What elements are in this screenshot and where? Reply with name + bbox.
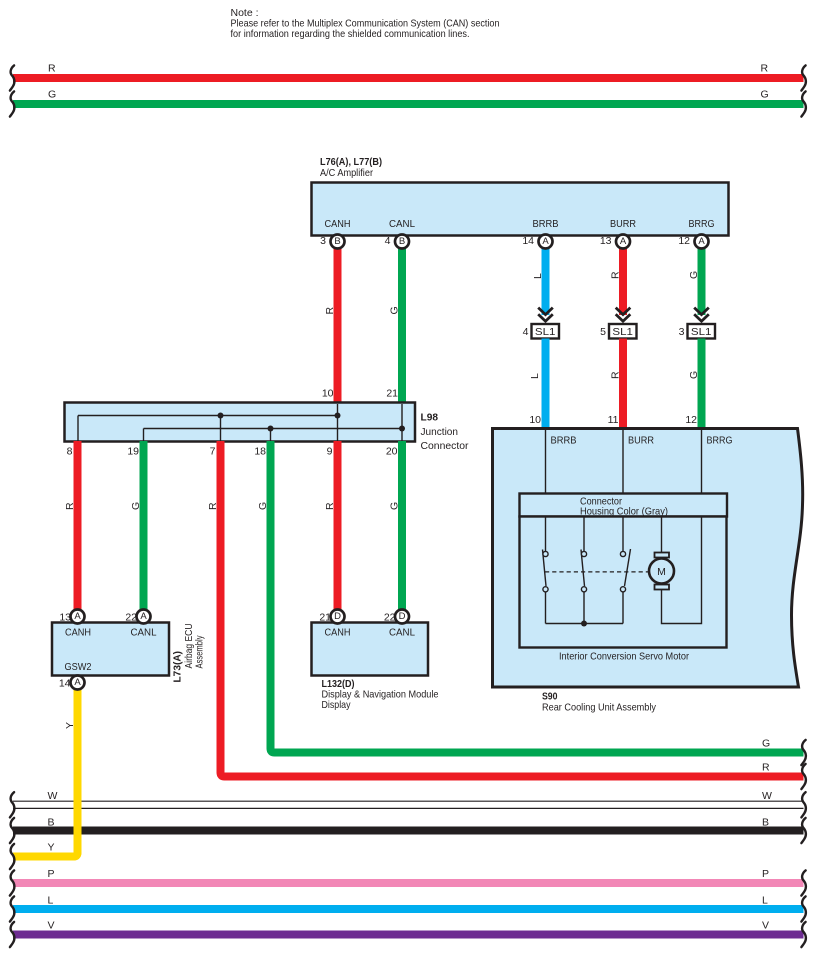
pin 22 A L73 [125, 610, 150, 624]
pin 22 D L132 [384, 610, 409, 624]
L98 internal CANL net [144, 404, 403, 441]
S90 internal BRRB lead [545, 430, 547, 494]
wire red pin8 L98 to L73 pin13 [74, 441, 82, 611]
break right L [801, 896, 805, 921]
svg-text:SL1: SL1 [535, 326, 556, 338]
svg-text:B: B [762, 816, 769, 828]
svg-text:R: R [48, 63, 56, 75]
svg-text:GSW2: GSW2 [65, 661, 92, 673]
svg-text:10: 10 [529, 414, 541, 426]
shield SL1 box 4 [523, 324, 559, 339]
svg-text:R: R [761, 63, 769, 75]
svg-text:W: W [762, 790, 772, 802]
svg-text:BRRB: BRRB [551, 435, 577, 447]
svg-text:BURR: BURR [610, 218, 636, 230]
svg-text:Rear Cooling Unit Assembly: Rear Cooling Unit Assembly [542, 702, 657, 714]
wire green pin20 L98 to L132 pin22 [398, 441, 406, 611]
break right V [801, 922, 805, 947]
wire green pin19 L98 to L73 pin22 [140, 441, 148, 611]
svg-text:5: 5 [600, 326, 606, 338]
svg-text:G: G [688, 371, 700, 379]
svg-text:R: R [324, 502, 336, 510]
svg-text:8: 8 [67, 446, 73, 458]
wire R top bus [13, 74, 804, 82]
wire R red from SL1 to S90 pin 11 [619, 339, 627, 431]
svg-text:CANH: CANH [325, 627, 351, 639]
break right P [801, 870, 805, 895]
rear cooling unit S90 box [493, 429, 803, 688]
wire green pin18 L98 down right to G bus [271, 441, 804, 753]
connector housing band [520, 494, 728, 518]
svg-text:G: G [761, 89, 769, 101]
wire P pink bus [13, 879, 804, 887]
svg-text:P: P [48, 868, 55, 880]
motor M [649, 517, 702, 624]
svg-text:A: A [140, 611, 147, 622]
display module L132 box [312, 623, 439, 712]
wire red pin9 L98 to L132 pin21 [334, 441, 342, 611]
shield SL1 box 3 [679, 324, 715, 339]
servo motor inner box [520, 517, 727, 648]
wire yellow GSW2 from L73 pin14 down left to Y end [13, 688, 78, 857]
svg-text:L: L [532, 273, 544, 279]
svg-text:P: P [762, 868, 769, 880]
pin 21 D L132 [319, 610, 344, 624]
svg-text:M: M [657, 566, 666, 578]
L98 internal CANH net [78, 404, 338, 441]
svg-text:CANH: CANH [325, 218, 351, 230]
junction dot pin18 [268, 426, 274, 432]
svg-text:SL1: SL1 [612, 326, 633, 338]
svg-text:A: A [620, 236, 627, 247]
svg-text:Connector: Connector [421, 440, 469, 452]
junction dot pin9 [335, 413, 341, 419]
svg-text:Interior Conversion Servo Moto: Interior Conversion Servo Motor [559, 651, 689, 663]
shield arrow chevrons BURR [616, 308, 631, 322]
svg-text:4: 4 [385, 235, 391, 247]
svg-text:G: G [688, 271, 700, 279]
svg-text:9: 9 [327, 446, 333, 458]
svg-text:R: R [762, 762, 770, 774]
break left L [10, 896, 14, 921]
svg-text:4: 4 [523, 326, 529, 338]
svg-text:14: 14 [59, 678, 71, 690]
pin 4 B CANL [385, 235, 409, 249]
svg-text:SL1: SL1 [691, 326, 712, 338]
svg-text:Junction: Junction [421, 426, 459, 438]
pin 14 A L73 [59, 676, 85, 690]
wire BRRB blue from amplifier to shield SL1 [542, 246, 550, 315]
wire BRRG green from amplifier to shield SL1 [698, 246, 706, 315]
shield arrow chevrons BRRG [694, 308, 709, 322]
svg-text:G: G [48, 89, 56, 101]
break right G bottom [801, 740, 805, 765]
svg-text:10: 10 [322, 388, 334, 400]
svg-text:L73(A): L73(A) [172, 651, 184, 683]
svg-text:D: D [399, 611, 406, 622]
svg-text:21: 21 [386, 388, 398, 400]
svg-text:V: V [48, 919, 55, 931]
mechanical link dashed [545, 571, 648, 573]
servo motor bottom bus [546, 623, 624, 625]
S90 internal BURR lead [622, 430, 624, 494]
break right W [801, 792, 805, 817]
switch 1 [543, 517, 547, 624]
break right R bottom [801, 764, 805, 789]
svg-text:L: L [48, 895, 54, 907]
svg-text:A: A [542, 236, 549, 247]
svg-text:B: B [334, 236, 340, 247]
switch 2 [581, 517, 585, 624]
svg-text:3: 3 [320, 235, 326, 247]
svg-text:R: R [64, 502, 76, 510]
pin 12 A BRRG [678, 235, 708, 249]
svg-text:L98: L98 [421, 412, 439, 424]
svg-text:R: R [610, 371, 622, 379]
junction dot switch2 [581, 621, 587, 627]
break right B [801, 818, 805, 843]
svg-text:Display: Display [322, 699, 352, 711]
svg-text:19: 19 [127, 446, 139, 458]
svg-text:13: 13 [600, 235, 612, 247]
wire red pin7 L98 down right to R bus [221, 441, 804, 777]
shield arrow chevrons BRRB [538, 308, 553, 322]
break left W [10, 792, 14, 817]
note text [231, 7, 500, 40]
pin labels under L98 [67, 446, 398, 458]
pin 3 B CANH [320, 235, 344, 249]
svg-text:G: G [389, 306, 401, 314]
svg-text:12: 12 [678, 235, 690, 247]
wire G green from SL1 to S90 pin 12 [698, 339, 706, 431]
svg-text:BRRG: BRRG [689, 218, 715, 230]
svg-text:3: 3 [679, 326, 685, 338]
junction connector L98 box [65, 388, 469, 453]
svg-text:A: A [74, 611, 81, 622]
svg-text:R: R [610, 271, 622, 279]
junction dot pin20 [399, 426, 405, 432]
svg-text:G: G [762, 738, 770, 750]
svg-text:L: L [762, 895, 768, 907]
wire W white bus [13, 801, 804, 808]
S90 internal BRRG lead [701, 430, 703, 494]
svg-text:W: W [48, 790, 58, 802]
break left R bus [10, 65, 14, 90]
pin 13 A L73 [59, 610, 84, 624]
wire L blue from SL1 to S90 pin 10 [542, 339, 550, 431]
junction dot pin7 [218, 413, 224, 419]
wire yellow over buses redraw [13, 790, 78, 857]
break right G bus [801, 91, 805, 116]
svg-text:R: R [207, 502, 219, 510]
switch 3 [623, 517, 631, 624]
break left Y [10, 844, 14, 869]
pin 13 A BURR [600, 235, 630, 249]
svg-text:B: B [48, 816, 55, 828]
svg-text:Y: Y [48, 842, 55, 854]
svg-text:A: A [698, 236, 705, 247]
shield SL1 box 5 [600, 324, 636, 339]
airbag ECU L73 box [52, 623, 206, 683]
wire V violet bus [13, 931, 804, 939]
svg-text:A: A [74, 677, 81, 688]
wire L light blue bus [13, 905, 804, 913]
break left V [10, 922, 14, 947]
svg-text:G: G [130, 502, 142, 510]
svg-text:CANH: CANH [65, 627, 91, 639]
wire B black bus [13, 827, 804, 835]
svg-text:A/C Amplifier: A/C Amplifier [320, 167, 373, 179]
svg-text:L: L [529, 373, 541, 379]
svg-text:20: 20 [386, 446, 398, 458]
svg-text:R: R [324, 307, 336, 315]
svg-text:18: 18 [254, 446, 266, 458]
svg-text:BURR: BURR [628, 435, 654, 447]
svg-text:7: 7 [210, 446, 216, 458]
wire BURR red from amplifier to shield SL1 [619, 246, 627, 315]
svg-text:for information regarding the: for information regarding the shielded c… [231, 28, 470, 40]
svg-text:CANL: CANL [389, 218, 415, 230]
svg-text:BRRB: BRRB [533, 218, 559, 230]
wire CANH red from A/C amplifier to L98 [334, 246, 342, 405]
svg-text:11: 11 [608, 414, 619, 426]
wire G top bus [13, 100, 804, 108]
svg-text:Y: Y [64, 722, 76, 729]
svg-text:BRRG: BRRG [707, 435, 733, 447]
break left B [10, 818, 14, 843]
svg-text:G: G [257, 502, 269, 510]
svg-text:B: B [399, 236, 405, 247]
svg-text:V: V [762, 919, 769, 931]
svg-text:Assembly: Assembly [194, 635, 206, 669]
svg-text:CANL: CANL [131, 627, 157, 639]
A/C amplifier box L76 L77 [312, 156, 729, 236]
wire CANL green from A/C amplifier to L98 [398, 246, 406, 405]
svg-text:CANL: CANL [389, 627, 415, 639]
pin 14 A BRRB [522, 235, 552, 249]
svg-text:D: D [334, 611, 341, 622]
svg-text:G: G [389, 502, 401, 510]
break left P [10, 870, 14, 895]
svg-text:14: 14 [522, 235, 534, 247]
break right R bus [801, 65, 805, 90]
break left G bus [10, 91, 14, 116]
svg-text:12: 12 [685, 414, 697, 426]
